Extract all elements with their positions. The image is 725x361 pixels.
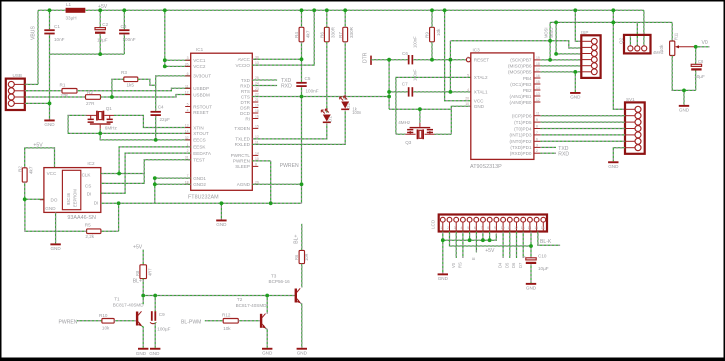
svg-text:100nF: 100nF [413,69,418,81]
wire R4 bottom to C5 [301,42,303,82]
svg-text:2: 2 [447,226,449,230]
wire xtal2 row [396,77,471,134]
wire bottom rail down to USB gnd junction [49,54,51,103]
svg-text:10: 10 [501,226,505,230]
wire pot bottom to gnd row [672,56,696,91]
svg-text:TXDEN: TXDEN [234,126,250,131]
svg-text:PWRCTL: PWRCTL [231,153,251,158]
svg-text:6: 6 [187,72,189,76]
IC2 pin stubs [40,174,106,200]
svg-text:GND: GND [149,351,160,356]
wire C9 top [154,296,156,312]
svg-text:+5V: +5V [133,245,143,251]
svg-text:2: 2 [536,149,538,153]
svg-text:9: 9 [494,226,496,230]
svg-text:GND1: GND1 [193,176,206,181]
wire DTR to reset row [371,59,408,61]
junction xtal1 b [449,90,453,94]
svg-text:TXLED: TXLED [235,137,250,142]
svg-text:L1: L1 [66,2,72,7]
svg-text:R6: R6 [320,32,325,38]
wire IC2 CS to IC1 TEST row [101,160,191,184]
wire R1 to IC1 USBDP [77,88,191,91]
svg-text:DCD: DCD [240,111,251,116]
wire gnd pin row [451,106,471,134]
ground T2 [262,348,272,350]
svg-text:C9: C9 [159,312,165,317]
resistor R2 usb [86,95,101,100]
wire BL+ row [143,295,294,297]
svg-text:14: 14 [255,151,259,155]
wire LED D2 to RXLED [252,111,345,145]
svg-text:15: 15 [255,124,259,128]
svg-text:USBDM: USBDM [193,92,210,97]
ground at ISP [570,92,580,94]
junction DO node [23,197,27,201]
wire IC1 GND pins column [154,178,156,203]
ground T1 [138,348,148,350]
resistor R3 [124,77,138,82]
wire xtal1 row [389,91,408,93]
wire USB pin1 VBUS [25,83,38,85]
wire R8 to BL+ node [142,279,144,296]
resistor R9 [430,27,435,42]
svg-text:D7: D7 [518,262,523,268]
IC3 RESET pin circle [466,58,470,62]
svg-text:T1: T1 [114,296,120,301]
junction on +5V rail at x=314.2 [312,8,316,12]
IC1 right pin stubs [252,58,258,60]
svg-text:4R7: 4R7 [148,268,153,276]
wire XTIN from crystal [114,115,191,127]
wire R2 pullup to DO [24,182,26,199]
wire IC2 CLK to IC1 EESK [101,147,191,174]
transistor T3 [295,289,297,303]
svg-text:27R: 27R [86,101,95,106]
capacitor C9 [151,311,153,321]
svg-text:BL+: BL+ [293,234,299,243]
wire C3 to bottom rail [123,34,125,54]
svg-text:BCP56-16: BCP56-16 [269,279,291,284]
svg-text:14: 14 [528,226,532,230]
svg-text:R5: R5 [85,223,91,228]
wire R5 left to DO node [25,199,87,231]
resistor R10 [102,319,114,324]
wire to IC1 pin VCC1 [165,59,191,61]
svg-text:3: 3 [187,56,189,60]
svg-text:R4: R4 [294,32,299,38]
wire wiper to V0 stub [696,46,710,48]
wire RESET over IC3 to ISP [450,41,581,48]
wire C1 to bottom rail [49,34,51,54]
svg-text:VCC2: VCC2 [193,64,206,69]
wire sck column [549,22,551,60]
wire PWREN stub [252,160,270,162]
svg-text:IC1: IC1 [196,47,204,52]
svg-text:(AIN0)PB0: (AIN0)PB0 [510,100,532,105]
wire Q2 pin2 drop [636,22,638,45]
junction on +5V rail at x=164.8 [163,8,167,12]
wire resonator right [435,133,452,135]
svg-text:32: 32 [185,136,189,140]
svg-text:IC2: IC2 [87,161,95,166]
wire rail to R9 [431,10,433,27]
svg-text:GND: GND [438,276,449,281]
svg-text:D5: D5 [504,262,509,268]
wire +5V to R8 [142,250,144,265]
svg-text:FT8U232AM: FT8U232AM [188,194,219,200]
svg-text:R7: R7 [338,32,343,38]
svg-text:T2: T2 [237,297,243,302]
wire pin3 row [556,53,581,55]
wire R6 to LED D1 [326,42,328,113]
junction bottom rail C2 [98,52,102,56]
svg-text:GND: GND [570,95,581,100]
resistor R2 pullup [22,168,27,182]
wire IC3 to SV1 row 5 [540,134,625,136]
wire PWREN to R10 [77,320,102,322]
wire lcd pin6 E [475,232,477,253]
junction sleep gnd bus [269,201,273,205]
svg-text:11: 11 [185,84,189,88]
ground at contrast [679,105,689,107]
svg-text:PB4: PB4 [523,76,532,81]
junction CLK row [117,172,121,176]
svg-text:C7: C7 [402,82,408,87]
capacitor C6 [408,55,410,64]
wire CLK row ext [119,173,144,175]
junction on +5V rail at x=301.5 [300,8,304,12]
junction pin3 row [554,52,558,56]
wire T1 collector [142,296,144,305]
wire T2 collector [266,296,268,314]
svg-text:17: 17 [536,68,540,72]
svg-text:EESK: EESK [193,145,206,150]
wire T1 emitter to gnd [142,326,144,348]
IC3 right pin stubs [534,59,541,61]
wire SV1 gnd [613,148,625,162]
svg-text:10nF: 10nF [54,37,65,42]
wire R5 row [101,230,119,232]
svg-text:100n: 100n [352,110,362,115]
svg-text:CS: CS [85,183,91,188]
R11 wiper arrow [677,46,695,48]
svg-text:12: 12 [514,226,518,230]
wire PB6 to ISP pin5 [540,65,581,67]
junction reset b [449,58,453,62]
svg-text:R9: R9 [425,32,430,38]
wire R12 to T2 base [238,320,260,322]
IC1 left pin stubs [185,59,191,61]
svg-text:DSR: DSR [240,105,250,110]
junction reset pullup [430,58,434,62]
svg-text:E: E [471,257,476,260]
wire R4 top to rail [301,10,303,27]
svg-text:R12: R12 [222,312,231,317]
resistor R4 [299,27,304,42]
wire R3 right jog to 3V3OUT [138,79,156,85]
svg-text:RESET: RESET [474,58,490,63]
connector LCD pins 1-16 [440,217,445,222]
svg-text:(OC1)PB3: (OC1)PB3 [510,82,532,87]
svg-text:Q1: Q1 [106,106,113,111]
junction IC1 VCC1 [163,58,167,62]
svg-text:10k: 10k [223,326,231,331]
capacitor C1 [44,29,54,31]
svg-text:12: 12 [536,98,540,102]
wire CTS row to reset network [252,96,389,98]
svg-text:10R: 10R [304,253,309,261]
wire VCCIO up to rail [252,10,314,65]
svg-text:3: 3 [454,226,456,230]
junction sck row [548,58,552,62]
connector LCD body [439,215,547,232]
svg-text:GND: GND [262,350,273,355]
svg-text:3V3OUT: 3V3OUT [193,74,211,79]
op-amp IC3 AT90S2313 body [471,53,534,159]
wire XTOUT to crystal [68,115,191,133]
wire rail to ISP pin1 [575,10,581,41]
wire capacitor bottom rail [50,53,125,55]
svg-text:7: 7 [481,226,483,230]
wire lcd data pin down x=503.1 [502,232,504,259]
svg-text:93AA46-SN: 93AA46-SN [67,215,96,221]
svg-text:6: 6 [474,226,476,230]
wire TXD stub [252,79,277,81]
svg-text:XTOUT: XTOUT [193,131,209,136]
wire R7 top to rail [344,10,346,27]
wire USB pin3 to R2 [25,96,86,98]
svg-text:16: 16 [536,74,540,78]
wire lcd pin1 down [442,232,444,274]
junction R3 pullup on D line [110,95,114,99]
svg-text:15: 15 [536,80,540,84]
svg-text:100nF: 100nF [413,36,418,48]
svg-text:VCCIO: VCCIO [235,63,250,68]
svg-text:EEDATA: EEDATA [193,151,212,156]
svg-text:10k: 10k [436,28,441,36]
svg-text:D4: D4 [498,262,503,268]
wire +5V rail left segment [38,9,66,11]
svg-text:4: 4 [461,226,463,230]
junction cts join [387,95,391,99]
svg-text:T3: T3 [271,273,277,278]
wire IC2 DO2 row to gnd bus [101,202,155,204]
svg-text:Q2: Q2 [619,37,624,44]
svg-text:20: 20 [465,97,469,101]
capacitor C2 polarized [95,28,105,30]
capacitor C8 [691,64,701,66]
wire BL-PWM to R12 [205,320,223,322]
junction isp gnd [573,70,577,74]
svg-text:SLEEP: SLEEP [235,164,250,169]
crystal Q3 4MHz [406,133,435,135]
svg-text:(AIN1)PB1: (AIN1)PB1 [510,94,532,99]
svg-text:4k7: 4k7 [29,166,34,174]
wire resonator stub up [419,109,421,123]
wire rail corner to Q2 pin3 [643,10,645,45]
svg-text:(INT1)PD3: (INT1)PD3 [510,133,532,138]
capacitor C7 [408,87,410,96]
svg-text:14: 14 [185,129,189,133]
wire lcd data pin down x=509.8 [509,232,511,259]
junction lcd gnd row x=482.9 [481,238,485,242]
svg-text:18: 18 [536,62,540,66]
svg-text:22pF: 22pF [160,117,171,122]
svg-text:(MOSI)PB5: (MOSI)PB5 [508,70,532,75]
inductor L1 [66,8,86,13]
junction on +5V rail at x=432 [430,8,434,12]
svg-text:10k: 10k [659,44,664,52]
connector X1 USB body [6,79,25,110]
wire rail to C2 [99,10,101,27]
svg-text:330R: 330R [349,26,354,38]
svg-text:RS: RS [458,262,463,268]
svg-text:R11: R11 [674,32,679,40]
svg-text:VBUS: VBUS [31,26,37,40]
svg-text:100µF: 100µF [157,326,170,331]
svg-text:8: 8 [536,125,538,129]
wire IC3 to SV1 row 3 [540,121,625,123]
transistor T1 [136,312,138,326]
svg-text:9: 9 [536,118,538,122]
wire reset col a [388,60,390,109]
svg-text:RXD: RXD [240,83,250,88]
resonator Q2 pins [628,46,633,51]
wire reset col b [449,41,451,92]
wire R6 top to rail [326,10,328,27]
svg-text:D1: D1 [328,116,333,122]
svg-text:3: 3 [536,143,538,147]
svg-text:R2: R2 [87,90,93,95]
svg-text:13: 13 [536,92,540,96]
junction on +5V rail at x=326.8 [325,8,329,12]
wire DO node to IC2 [25,198,44,200]
svg-text:BL+: BL+ [133,278,142,284]
wire T3 emitter down [300,303,302,348]
svg-text:(T0)PD4: (T0)PD4 [514,126,532,131]
wire lcd pin14 down [530,232,532,258]
svg-text:DTR: DTR [241,100,251,105]
connector X1 USB pins 1-4 [8,81,14,87]
svg-text:C5: C5 [305,76,311,81]
junction lcd 5v c10 [529,244,533,248]
wire gnd bus stem [220,203,222,219]
svg-text:10µF: 10µF [97,37,108,42]
svg-text:(INT0)PD2: (INT0)PD2 [510,139,532,144]
resistor R12 [223,319,238,324]
svg-text:C10: C10 [538,254,547,259]
svg-text:USBDP: USBDP [193,86,209,91]
svg-text:BL-K: BL-K [540,239,552,245]
svg-text:5: 5 [187,103,189,107]
svg-text:GND: GND [216,222,227,227]
svg-text:C3: C3 [121,24,127,29]
wire +5V to IC2 VCC and R2pull [25,148,55,168]
svg-text:XTAL1: XTAL1 [474,90,488,95]
wire C10 to gnd [530,264,532,283]
svg-text:C8: C8 [698,59,704,64]
junction resonator gnd [418,107,422,111]
svg-text:5: 5 [467,73,469,77]
wire lcd data pin down x=516.5 [516,232,518,259]
svg-text:GND: GND [297,350,308,355]
svg-text:11: 11 [507,226,511,230]
resistor R8 [140,265,147,279]
LED D1 [323,115,331,122]
wire lcd pin3 V0 [455,232,457,259]
IC2 inner box [62,170,80,209]
svg-text:19: 19 [255,104,259,108]
svg-text:R2: R2 [18,166,23,172]
svg-text:8: 8 [255,162,257,166]
svg-text:26: 26 [185,62,189,66]
wire xtal1 row right [413,91,471,93]
svg-text:GND: GND [50,246,61,251]
ground at SV1 [608,161,618,163]
svg-text:R10: R10 [99,313,108,318]
svg-text:16: 16 [255,115,259,119]
wire R13 to T3 collector [301,264,303,288]
svg-text:RXLED: RXLED [235,142,251,147]
connector ISP pins 1-6 [591,38,597,44]
wire C4 bottom to row [155,116,157,140]
wire 3V3OUT from IC1 [156,76,191,111]
resonator Q2 body [624,35,651,54]
svg-text:R1: R1 [60,83,66,88]
svg-text:RSTOUT: RSTOUT [193,104,212,109]
svg-text:LCD: LCD [431,219,436,229]
svg-text:AT90S2313P: AT90S2313P [470,164,502,170]
svg-text:RI: RI [245,116,250,121]
svg-text:GND: GND [474,104,485,109]
wire XTOUT branch to IC1 EECS row [100,133,191,140]
svg-text:Q3: Q3 [405,140,412,145]
svg-text:D6: D6 [511,262,516,268]
junction lcd gnd row x=489.6 [488,238,492,242]
svg-text:14: 14 [536,86,540,90]
svg-text:PWREN: PWREN [280,163,299,169]
svg-text:6MHz: 6MHz [105,125,118,130]
svg-text:21: 21 [255,98,259,102]
junction XTOUT branch [98,132,102,136]
wire lcd pin5 down [469,232,471,241]
svg-text:10: 10 [465,102,469,106]
junction GND1 [153,176,157,180]
wire Q2 pin1 drop [629,36,631,45]
junction lcd gnd row x=469.6 [468,238,472,242]
wire lcd pin8 down [489,232,491,241]
wire IC2 DI to IC1 EEDATA [101,153,191,193]
junction reset a [387,58,391,62]
ground at USB [44,120,54,122]
svg-text:C6: C6 [402,51,408,56]
wire lcd data pin down x=523.2 [522,232,524,259]
wire pot gnd stem [683,90,685,105]
capacitor C3 [119,29,129,31]
junction AVCC R4 [300,57,304,61]
junction R5 column [117,201,121,205]
svg-text:ISP: ISP [581,30,588,35]
svg-text:5: 5 [467,226,469,230]
wire AVCC to R4 column [252,58,301,60]
svg-text:(T1)PD5: (T1)PD5 [514,120,532,125]
junction pot gnd [682,89,686,93]
svg-text:VCC: VCC [47,171,57,176]
svg-text:23: 23 [255,87,259,91]
svg-text:BC817-40SMD: BC817-40SMD [113,303,145,308]
junction on +5V rail at x=124.3 [122,8,126,12]
